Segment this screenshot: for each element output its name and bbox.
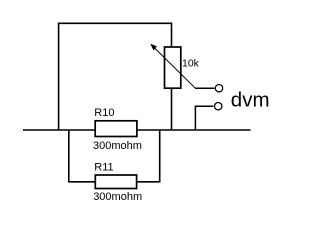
wire pot bottom to bus <box>171 88 173 130</box>
terminal circle 2 <box>215 103 222 110</box>
wire wiper to terminal 1 <box>195 87 215 89</box>
svg-text:10k: 10k <box>182 57 200 69</box>
wire R11 left branch <box>69 130 95 182</box>
svg-text:R11: R11 <box>94 162 113 174</box>
wire main horizontal bus <box>23 129 251 131</box>
wire dvm lower branch <box>195 106 213 130</box>
svg-text:dvm: dvm <box>231 89 270 112</box>
potentiometer body <box>165 47 181 88</box>
wire R11 right branch <box>137 130 160 182</box>
resistor R10 body <box>95 121 137 137</box>
svg-text:300mohm: 300mohm <box>93 140 142 152</box>
svg-text:300mohm: 300mohm <box>93 191 142 203</box>
wire top loop (left vertical, top horizontal, right vertical to pot) <box>59 23 172 130</box>
terminal circle 1 <box>215 85 222 92</box>
potentiometer wiper arrow <box>150 44 195 89</box>
resistor R11 body <box>95 175 136 189</box>
svg-text:R10: R10 <box>94 107 114 119</box>
